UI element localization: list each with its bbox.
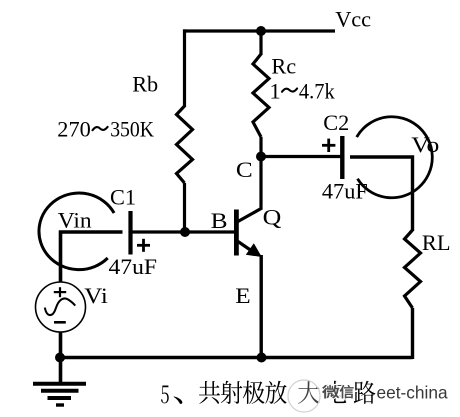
node C junction — [256, 152, 266, 162]
svg-text:Vo: Vo — [411, 132, 439, 157]
transistor Q emitter lead — [238, 242, 254, 253]
resistor RL — [405, 230, 421, 308]
svg-text:Vin: Vin — [58, 207, 92, 232]
node B junction — [180, 227, 190, 237]
transistor Q emitter arrow — [246, 243, 262, 257]
transistor Q collector lead — [237, 208, 262, 222]
wire emitter to bottom rail — [260, 255, 263, 358]
C1 polarity plus — [137, 239, 150, 252]
svg-text:1: 1 — [270, 79, 281, 104]
wire collector node to C2 — [261, 155, 341, 158]
wire collector lead to C node — [259, 157, 262, 210]
wire Vcc rail down to Rb — [183, 29, 186, 107]
Vi minus — [54, 321, 66, 324]
node ground junction — [55, 353, 65, 363]
node emitter junction on bottom rail — [257, 353, 267, 363]
wire base node to transistor base — [132, 230, 234, 233]
Vi plus — [54, 287, 66, 297]
wire Vcc rail — [183, 29, 335, 32]
resistor Rb — [177, 106, 193, 183]
node Vcc-Rc junction — [256, 26, 266, 36]
wire Vi to ground rail — [59, 332, 63, 358]
svg-text:C: C — [236, 158, 253, 182]
svg-text:4.7k: 4.7k — [299, 79, 336, 104]
svg-text:E: E — [235, 284, 250, 308]
svg-text:RL: RL — [422, 230, 451, 255]
svg-text:B: B — [211, 209, 228, 233]
svg-text:Q: Q — [263, 205, 282, 230]
Rc value tilde — [282, 89, 297, 92]
source Vi circle — [36, 282, 86, 332]
watermark char 信 — [340, 385, 354, 399]
watermark char 微 — [322, 385, 340, 399]
watermark circle logo — [288, 380, 320, 412]
resistor Rc — [253, 54, 269, 137]
Vi sine wave — [45, 298, 75, 315]
wire RL to bottom rail — [411, 308, 414, 359]
svg-text:Rb: Rb — [132, 72, 158, 97]
svg-text:eet-china: eet-china — [377, 382, 448, 402]
wire bottom rail — [60, 356, 413, 360]
svg-text:C1: C1 — [110, 184, 136, 209]
svg-text:C2: C2 — [323, 110, 349, 135]
capacitor C2 plate — [340, 136, 344, 179]
Vo port circle — [357, 117, 433, 198]
Rb value tilde — [93, 127, 108, 130]
Vin port circle — [39, 193, 114, 270]
svg-text:Rc: Rc — [271, 53, 296, 78]
C2 polarity plus — [322, 139, 335, 152]
svg-text:Vi: Vi — [84, 283, 108, 308]
caption text 5、共射极放大电路 — [161, 386, 169, 404]
wire Rb to base node — [183, 183, 186, 232]
wire Vin lead to C1 — [59, 231, 123, 283]
svg-text:Vcc: Vcc — [335, 7, 371, 32]
wire C2 to RL corner — [350, 157, 413, 231]
wire Rc to collector node — [259, 137, 262, 157]
svg-text:47uF: 47uF — [109, 254, 158, 279]
capacitor C1 plate — [128, 211, 132, 255]
svg-text:350K: 350K — [110, 116, 154, 141]
ground symbol — [33, 358, 86, 406]
svg-text:270: 270 — [57, 116, 90, 141]
transistor Q base bar — [234, 210, 239, 256]
wire Vcc to Rc — [259, 31, 262, 55]
